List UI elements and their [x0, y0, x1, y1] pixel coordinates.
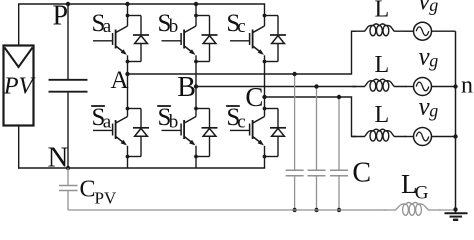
label vg phase B: [419, 44, 439, 71]
transistor Sb-bar (bottom IGBT) with antiparallel diode: [162, 107, 218, 159]
node cap B tap: [314, 84, 318, 88]
PV source panel: [3, 46, 36, 126]
inductor L phase C: [353, 129, 407, 141]
svg-text:L: L: [375, 0, 390, 23]
transistor Sa (top IGBT) with antiparallel diode: [93, 14, 149, 64]
label Sc-bar: [226, 104, 246, 133]
capacitor dc-link: [49, 4, 88, 168]
node cap B on ground rail: [314, 208, 318, 212]
svg-text:c: c: [237, 111, 245, 132]
svg-text:N: N: [48, 142, 69, 174]
label Sc: [226, 10, 245, 37]
wire phase A to filter: [128, 31, 357, 74]
capacitor C phase C: [330, 97, 348, 210]
label Sb-bar: [157, 104, 178, 133]
ac source vg phase C: [405, 128, 455, 146]
svg-text:L: L: [375, 102, 390, 128]
node cap A tap: [292, 72, 296, 76]
node P: [53, 0, 71, 31]
svg-text:b: b: [169, 111, 179, 132]
svg-text:g: g: [429, 51, 438, 71]
label L_G: [401, 169, 429, 204]
wire leg a vertical segments: [127, 4, 129, 168]
transistor Sc (top IGBT) with antiparallel diode: [230, 14, 286, 64]
node bus phase B junction: [453, 84, 457, 88]
label vg phase A: [419, 0, 439, 15]
svg-text:n: n: [461, 73, 473, 99]
inductor L phase B: [353, 79, 407, 91]
wire leg c vertical segments: [264, 4, 266, 168]
node N: [48, 142, 71, 174]
label Sb: [158, 10, 179, 37]
transistor Sb (top IGBT) with antiparallel diode: [162, 14, 218, 64]
svg-text:PV: PV: [95, 189, 117, 208]
svg-text:C: C: [352, 158, 371, 189]
wire PV top to P rail: [18, 4, 20, 46]
capacitor C phase B: [308, 87, 326, 211]
wire PV bottom to N rail: [18, 126, 20, 169]
wire right bus (grid neutral): [455, 31, 457, 213]
wire ground rail (gray): [68, 209, 456, 211]
node leg a on P rail: [125, 2, 129, 6]
inductor L_G: [384, 202, 441, 215]
inductor L phase A: [353, 24, 407, 36]
label Sa: [92, 10, 112, 37]
wire P rail: [18, 3, 265, 5]
label Sa-bar: [91, 104, 112, 133]
svg-text:P: P: [53, 0, 69, 31]
svg-text:B: B: [177, 72, 196, 103]
svg-text:A: A: [111, 67, 129, 94]
wire N rail: [18, 167, 265, 169]
capacitor C_PV: [59, 168, 78, 210]
ground symbol: [445, 213, 468, 220]
node A: [111, 67, 130, 94]
svg-text:c: c: [237, 16, 245, 37]
node ground rail to neutral bus: [453, 207, 457, 211]
node bus phase C junction: [453, 134, 457, 138]
transistor Sc-bar (bottom IGBT) with antiparallel diode: [230, 107, 286, 159]
node cap C on ground rail: [337, 208, 341, 212]
node C: [245, 82, 266, 112]
node leg b on P rail: [194, 2, 198, 6]
svg-text:PV: PV: [3, 73, 36, 99]
svg-text:G: G: [415, 183, 429, 204]
transistor Sa-bar (bottom IGBT) with antiparallel diode: [93, 107, 149, 159]
capacitor C phase A: [286, 74, 304, 210]
node cap A on ground rail: [292, 208, 296, 212]
svg-text:g: g: [429, 101, 438, 121]
svg-text:C: C: [80, 177, 96, 203]
wire phase C to filter: [265, 97, 357, 137]
ac source vg phase B: [405, 78, 455, 96]
wire phase B to filter: [196, 86, 356, 88]
wire leg b vertical segments: [195, 4, 197, 168]
svg-text:g: g: [429, 0, 438, 15]
label C_PV: [80, 177, 117, 208]
svg-text:L: L: [375, 52, 390, 78]
label vg phase C: [419, 94, 439, 121]
ac source vg phase A: [405, 22, 455, 40]
svg-text:a: a: [103, 16, 112, 37]
svg-text:b: b: [169, 16, 179, 37]
node B: [177, 72, 198, 103]
svg-text:a: a: [103, 111, 112, 132]
node cap C tap: [337, 95, 341, 99]
